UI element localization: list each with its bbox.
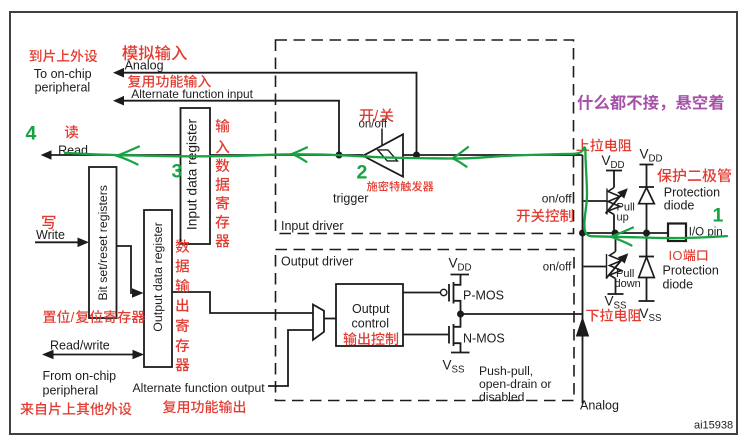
svg-text:diode: diode — [664, 199, 695, 213]
VSS terminal bar (diode D2) — [639, 300, 655, 302]
label red alternate function output — [163, 400, 245, 413]
svg-text:Analog: Analog — [580, 399, 619, 413]
wire write arrow — [35, 241, 78, 243]
wire analog path down — [582, 233, 584, 404]
svg-text:Output data register: Output data register — [151, 222, 165, 332]
svg-text:N-MOS: N-MOS — [463, 332, 505, 346]
svg-text:down: down — [615, 278, 641, 290]
P-MOS gate bar — [448, 284, 450, 302]
node: protection diodes on pin line — [643, 230, 650, 237]
wire pin line to diode D2 — [646, 233, 648, 257]
wire bit set/reset to output data register — [117, 246, 134, 293]
label red IO port — [669, 248, 708, 263]
label red bit set/reset registers — [43, 309, 145, 325]
svg-text:Protection: Protection — [663, 264, 719, 278]
label red pull-down resistor — [586, 309, 641, 322]
wire pull-up on/off switch — [584, 200, 608, 202]
svg-text:Push-pull,: Push-pull, — [479, 364, 533, 378]
wire pull-down resistor to VSS — [615, 279, 617, 295]
svg-text:Alternate function output: Alternate function output — [133, 381, 266, 395]
green arrow at pin line — [611, 228, 634, 246]
wire alternate function output to mux — [268, 330, 313, 386]
svg-text:trigger: trigger — [333, 192, 368, 206]
svg-text:3: 3 — [172, 161, 183, 183]
diode D2 cathode bar — [639, 256, 654, 258]
label red output control — [344, 332, 399, 345]
wire analog input (to on-chip peripheral) — [118, 73, 417, 155]
svg-text:Bit set/reset registers: Bit set/reset registers — [96, 185, 110, 300]
wire VDD to pull-up resistor — [613, 171, 615, 188]
output control box — [336, 284, 403, 346]
wire green highlighted input path — [65, 147, 727, 238]
svg-text:disabled: disabled — [479, 390, 524, 404]
input driver dashed box — [276, 40, 574, 234]
arrowhead analog up — [576, 317, 589, 337]
svg-text:Write: Write — [36, 228, 65, 242]
VDD terminal bar (pull-up) — [606, 170, 622, 172]
VSS terminal bar (N-MOS) — [451, 352, 470, 354]
green arrow at read — [117, 147, 140, 165]
node: AF input tap on trigger output — [336, 152, 343, 159]
svg-text:Read/write: Read/write — [50, 339, 110, 353]
wire trigger input from pin — [403, 154, 583, 156]
wire VDD to diode D1 — [646, 165, 648, 188]
N-MOS gate bar — [448, 326, 450, 344]
pull-down switch bar — [606, 254, 608, 278]
label red pull-up resistor — [576, 139, 631, 152]
svg-text:control: control — [352, 317, 390, 331]
pull-up variable arrowhead — [617, 188, 628, 198]
wire mux to output control — [324, 318, 336, 320]
N-MOS channel bar — [453, 324, 455, 346]
label purple floating note — [577, 94, 723, 110]
svg-text:4: 4 — [26, 122, 37, 144]
VSS terminal bar (pull-down) — [608, 293, 624, 295]
label red output data register column — [176, 239, 190, 253]
resistor pull-down zigzag — [610, 252, 622, 279]
svg-text:on/off: on/off — [543, 262, 572, 274]
svg-text:1: 1 — [713, 205, 724, 227]
label red read — [65, 125, 78, 139]
pull-down variable arrow shaft — [606, 260, 622, 279]
VDD terminal bar (P-MOS) — [451, 274, 470, 276]
wire output control to N-MOS gate — [403, 334, 449, 336]
arrowhead read/write left — [42, 350, 54, 360]
label red from on-chip peripheral — [20, 402, 131, 415]
output mux trapezoid — [313, 305, 324, 340]
svg-text:I: I — [669, 248, 673, 263]
arrowhead analog input — [113, 68, 124, 78]
wire to I/O pin — [583, 232, 669, 234]
wire read / trigger output — [44, 154, 363, 156]
VDD terminal bar (diode D1) — [640, 164, 654, 166]
svg-text:To on-chip: To on-chip — [34, 67, 92, 81]
wire pull-down on/off switch — [584, 266, 607, 268]
node: pin line / riser junction — [579, 230, 586, 237]
label red switch control — [517, 209, 573, 223]
svg-text:Read: Read — [58, 144, 88, 158]
svg-text:peripheral: peripheral — [43, 384, 99, 398]
wire trigger on/off control — [381, 129, 383, 146]
svg-text:O: O — [672, 248, 682, 263]
label red write — [42, 216, 55, 229]
svg-text:Input data register: Input data register — [185, 118, 200, 230]
node: pull resistors on pin line — [612, 230, 619, 237]
green arrow at mid input line — [292, 147, 307, 162]
output driver dashed box — [276, 250, 575, 401]
wire pin vertical riser — [582, 155, 584, 233]
label red input data register column — [216, 119, 230, 133]
P-MOS source stub — [454, 275, 461, 285]
svg-text:Alternate function input: Alternate function input — [131, 87, 253, 101]
arrowhead alternate function input — [113, 96, 124, 106]
label red protection diode — [657, 168, 731, 182]
svg-text:open-drain or: open-drain or — [479, 377, 552, 391]
arrowhead into output data register — [132, 288, 144, 298]
N-MOS drain stub — [454, 314, 461, 327]
svg-text:on/off: on/off — [542, 192, 572, 206]
pull-up switch bar — [606, 189, 608, 215]
wire pin line to pull-down resistor — [615, 233, 617, 252]
wire alternate function input — [118, 101, 339, 155]
wire diode D1 to pin line — [646, 204, 648, 233]
svg-text:P-MOS: P-MOS — [463, 289, 504, 303]
bit set/reset registers box — [89, 167, 117, 318]
svg-text:peripheral: peripheral — [35, 81, 91, 95]
schmitt hysteresis symbol — [378, 150, 398, 161]
svg-text:diode: diode — [663, 278, 694, 292]
wire pull-up resistor to pin line — [613, 215, 615, 234]
pull-up variable arrow shaft — [606, 195, 622, 214]
wire read/write double arrow — [52, 354, 134, 356]
diode D2 triangle — [639, 257, 655, 278]
label red on/off — [360, 108, 394, 125]
resistor pull-up zigzag — [608, 188, 620, 215]
svg-text:Output: Output — [352, 302, 390, 316]
svg-text:Input driver: Input driver — [281, 219, 344, 233]
label red analog input — [122, 45, 187, 60]
P-MOS gate bubble — [441, 289, 447, 295]
svg-text:up: up — [617, 212, 629, 224]
arrowhead read/write right — [133, 350, 145, 360]
I/O pin square — [668, 224, 686, 242]
label red to-chip-peripheral — [29, 49, 97, 62]
N-MOS source stub — [454, 343, 461, 352]
output data register box — [144, 210, 172, 367]
diode D1 triangle — [639, 188, 655, 204]
wire diode D2 to VSS — [646, 278, 648, 302]
svg-text:2: 2 — [357, 161, 368, 183]
svg-text:Output driver: Output driver — [281, 255, 353, 269]
wire output data register to mux — [172, 292, 313, 313]
arrowhead read — [41, 150, 52, 159]
svg-text:ai15938: ai15938 — [694, 420, 733, 432]
svg-text:Protection: Protection — [664, 186, 720, 200]
node: P-MOS/N-MOS drain junction — [457, 311, 464, 318]
schmitt trigger TTL triangle — [363, 134, 403, 176]
pull-down variable arrowhead — [618, 253, 629, 263]
arrowhead write — [78, 238, 90, 248]
input data register box — [181, 108, 211, 244]
P-MOS channel bar — [453, 282, 455, 304]
svg-text:/: / — [71, 309, 75, 325]
svg-text:Analog: Analog — [125, 59, 164, 73]
diode D1 cathode bar — [639, 186, 654, 188]
node: analog tap on trigger input — [413, 152, 420, 159]
svg-text:From on-chip: From on-chip — [43, 369, 117, 383]
label red schmitt trigger — [367, 181, 434, 192]
wire output control to P-MOS gate — [403, 292, 440, 294]
label red alternate function input — [128, 75, 211, 88]
P-MOS drain stub — [454, 301, 461, 314]
wire mosfet output to pin — [461, 313, 583, 315]
green arrow at right of trigger — [453, 147, 469, 167]
